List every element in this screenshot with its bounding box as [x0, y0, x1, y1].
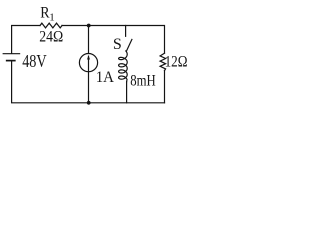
resistor R2 12ohm	[160, 53, 166, 70]
junction node top	[87, 24, 91, 28]
svg-text:48V: 48V	[22, 51, 47, 71]
switch S blade	[127, 39, 132, 51]
wire right-bottom	[164, 71, 166, 103]
svg-text:1A: 1A	[96, 69, 115, 86]
switch stub	[125, 26, 127, 37]
svg-text:24Ω: 24Ω	[39, 29, 63, 46]
battery V1 long plate	[3, 53, 19, 55]
junction node bottom	[87, 101, 91, 105]
wire current-source bottom	[88, 72, 90, 103]
current source I1 circle	[79, 54, 97, 72]
svg-text:8mH: 8mH	[130, 72, 156, 89]
battery V1 short plate	[7, 60, 15, 62]
wire bottom-left	[12, 61, 165, 103]
inductor L1 coil	[119, 51, 128, 82]
svg-text:1: 1	[49, 11, 55, 23]
svg-text:12Ω: 12Ω	[165, 54, 188, 71]
svg-text:S: S	[113, 36, 122, 53]
wire current-source top	[88, 26, 90, 54]
wire top-right	[62, 26, 165, 54]
wire top-left	[12, 26, 40, 54]
resistor R1	[40, 23, 62, 28]
current source arrowhead	[87, 55, 90, 60]
wire inductor bottom	[126, 82, 128, 103]
current source arrow shaft	[88, 56, 90, 70]
